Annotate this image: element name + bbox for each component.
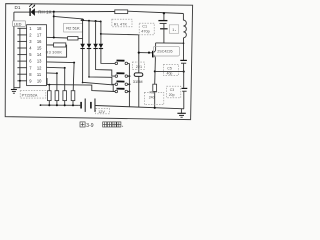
svg-text:18: 18 — [37, 26, 42, 31]
wire LED cathode — [14, 11, 30, 13]
svg-text:PT2262A: PT2262A — [22, 93, 38, 97]
wire tank node line — [101, 33, 139, 36]
wire pin14 — [47, 61, 75, 64]
svg-text:10: 10 — [37, 78, 42, 83]
transistor Q1 base wire — [139, 52, 152, 54]
IC left pin stubs 1-9 — [17, 28, 26, 81]
resistor R2 51K (on DOUT) — [68, 37, 78, 40]
svg-text:C5: C5 — [167, 66, 172, 70]
label L1 box — [169, 25, 178, 34]
inductor L1 antenna coil — [182, 14, 184, 21]
LED D1 diode symbol — [29, 8, 30, 16]
svg-text:12V: 12V — [98, 110, 105, 114]
svg-text:470p: 470p — [141, 30, 149, 34]
diode V4 column — [100, 22, 102, 44]
svg-text:R3 300K: R3 300K — [46, 50, 63, 54]
node diode bus junctions — [81, 19, 84, 22]
svg-text:RL 47K: RL 47K — [114, 23, 128, 27]
IC pin numbers left — [29, 26, 32, 84]
resistor R6 — [63, 91, 67, 101]
label C5 40p — [163, 64, 178, 75]
caption — [80, 122, 121, 127]
svg-text:RH 1K: RH 1K — [38, 9, 51, 14]
svg-text:14: 14 — [37, 52, 42, 57]
ground (right) — [180, 109, 182, 113]
switch S1 — [115, 62, 118, 65]
SAW resonator column — [138, 35, 140, 108]
resistor R3 300K (oscillator) — [54, 43, 66, 47]
LED label box — [13, 21, 26, 26]
wire tank top — [156, 42, 184, 44]
IC name label PT2262 — [20, 91, 46, 98]
svg-text:11: 11 — [37, 72, 42, 77]
wire to diode anodes — [54, 16, 83, 19]
svg-text:R6: R6 — [150, 91, 155, 95]
wire top rail left segment — [35, 11, 115, 13]
svg-text:3-9: 3-9 — [86, 123, 93, 129]
resistor RL (top) — [115, 10, 128, 14]
IC U1 PT2262 body — [27, 25, 47, 86]
switch S2 — [115, 75, 118, 78]
ground (left) — [11, 90, 17, 94]
switch S3 — [115, 83, 118, 86]
wire R2 to diode column — [78, 37, 83, 39]
capacitor C4 column — [163, 12, 165, 14]
capacitor C3 — [182, 87, 188, 89]
svg-text:13: 13 — [37, 59, 42, 64]
wire collector up — [155, 43, 157, 51]
wire pin13 — [47, 66, 65, 69]
resistor R6 emitter — [153, 84, 157, 91]
resistor R4 — [48, 91, 52, 101]
node V4 tank junction — [100, 33, 102, 35]
LED D1 emission arrows — [29, 4, 35, 8]
node bus S4 — [128, 91, 130, 93]
wire pin17 DOUT — [47, 36, 68, 39]
wire pin12 — [47, 72, 57, 74]
wire top rail right segment — [128, 11, 184, 13]
wires resistor bottoms — [49, 101, 73, 106]
svg-text:R2 51K: R2 51K — [66, 26, 80, 31]
IC pin numbers right — [37, 26, 42, 84]
svg-text:16: 16 — [37, 39, 42, 44]
svg-text:1: 1 — [172, 28, 174, 32]
svg-text:240: 240 — [149, 95, 155, 99]
svg-text:C3: C3 — [170, 88, 174, 92]
svg-text:20p: 20p — [169, 93, 175, 97]
label 2SC4226 — [153, 47, 179, 56]
wire pin16 OSC — [47, 44, 54, 46]
label R6 240 — [144, 92, 163, 104]
wire button rail — [47, 85, 115, 92]
svg-text:221: 221 — [136, 65, 142, 69]
label C1 470p — [139, 23, 154, 35]
svg-text:C1: C1 — [142, 25, 147, 29]
diode V3 column — [95, 21, 97, 44]
diode V1 column — [82, 19, 84, 44]
label C3 20p — [167, 86, 181, 98]
label 221 — [132, 62, 144, 69]
svg-text:12: 12 — [37, 65, 42, 70]
wire switch bus — [128, 63, 130, 107]
battery GB 12V — [79, 104, 81, 106]
label R2 51K — [64, 23, 83, 32]
label RL 47K — [112, 19, 132, 27]
svg-text:17: 17 — [37, 33, 42, 38]
wire emitter feedback — [155, 70, 184, 72]
diode V2 column — [88, 21, 90, 44]
wire pin11 to rail — [46, 79, 49, 85]
node pin17 junction — [53, 36, 55, 38]
wire vertical from top rail to pin17 — [53, 12, 55, 38]
wire address bus vertical — [14, 28, 20, 87]
wire R3 loop to pin15 — [47, 45, 67, 57]
border frame — [5, 4, 192, 120]
svg-text:15: 15 — [37, 46, 42, 51]
wire left vertical to ground — [13, 12, 15, 89]
node rail junctions — [40, 104, 42, 106]
resistor R7 — [71, 91, 75, 101]
wire ground rail (resistors) — [40, 104, 79, 106]
node top rail junction — [53, 11, 55, 13]
node pin9 junction — [19, 80, 21, 82]
wire coil to C5 — [183, 38, 185, 60]
wire to C3 — [183, 72, 185, 88]
svg-text:315M: 315M — [133, 79, 143, 84]
svg-text:2SC4226: 2SC4226 — [157, 50, 172, 54]
wire diode top bus — [81, 20, 101, 21]
node bus S2 — [128, 75, 130, 77]
transistor Q1 2SC4226 — [152, 51, 154, 58]
switch S4 — [115, 90, 118, 93]
node bus S3 — [128, 83, 130, 85]
svg-text:D1: D1 — [15, 5, 21, 10]
node wire2 junction — [53, 15, 55, 17]
svg-text:LED: LED — [14, 21, 22, 26]
resistor R5 — [55, 91, 59, 101]
label 12V — [96, 108, 110, 114]
capacitor C5 — [180, 59, 187, 61]
node emitter feedback — [183, 71, 185, 73]
wire emitter down — [154, 57, 157, 84]
node R4 top — [48, 84, 50, 86]
SAW resonator B1 — [134, 73, 143, 77]
wire negative rail to ground — [96, 106, 185, 109]
